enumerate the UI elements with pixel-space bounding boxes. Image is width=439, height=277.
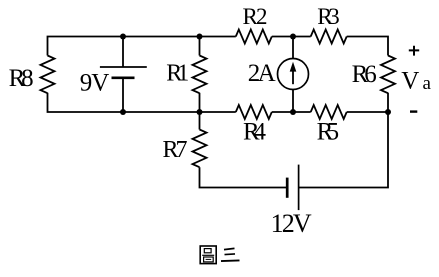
node top R1: [197, 34, 203, 40]
resistor R5: [311, 105, 347, 119]
svg-text:a: a: [423, 73, 432, 94]
node middle R1/R7: [197, 109, 203, 115]
resistor R8: [41, 56, 55, 94]
node top 2A: [290, 34, 296, 40]
battery 9V long plate: [100, 66, 147, 68]
svg-text:R4: R4: [243, 119, 267, 146]
node middle 9V: [120, 109, 126, 115]
wire 9V top: [122, 37, 124, 68]
svg-text:V: V: [401, 68, 419, 95]
battery 12V short plate: [286, 178, 289, 198]
resistor R7: [193, 130, 207, 168]
wire 2A source top: [292, 37, 294, 59]
wire R7 top: [199, 112, 201, 130]
圖 bottom box inner line: [206, 258, 212, 260]
minus sign of Va: [410, 110, 417, 112]
node middle 2A: [290, 109, 296, 115]
wire 9V bottom: [122, 78, 124, 112]
current source I1 2A circle: [278, 59, 309, 90]
wire 2A source bottom: [292, 89, 294, 112]
圖 outer box: [200, 246, 216, 264]
wire right branch down to bottom-right corner: [299, 93, 388, 188]
圖 middle bar: [202, 254, 214, 256]
wire R7 bottom / bottom-left rail: [200, 167, 288, 187]
圖 inner bottom box: [204, 257, 214, 262]
battery 12V long plate: [298, 165, 300, 211]
wire top-left rail: [48, 37, 236, 56]
resistor R4: [236, 105, 272, 119]
resistor R3: [311, 30, 347, 44]
圖 inner top small box: [204, 249, 211, 253]
wire R1 bottom: [199, 93, 201, 112]
wire between R2 and R3: [272, 36, 311, 38]
三 bottom stroke: [221, 259, 240, 262]
wire top-right corner: [347, 37, 388, 56]
wire R1 top: [199, 37, 201, 56]
svg-text:R1: R1: [166, 61, 189, 87]
svg-text:R7: R7: [163, 137, 188, 163]
svg-text:R6: R6: [352, 61, 377, 88]
caption 圖三 (Figure 3): [200, 246, 239, 264]
node top 9V: [120, 34, 126, 40]
svg-text:9V: 9V: [80, 70, 110, 97]
wire bottom-left corner / middle rail left: [48, 93, 236, 112]
三 top stroke: [224, 248, 235, 249]
wire between R4 and R5: [272, 111, 311, 113]
current source arrow: [292, 71, 294, 85]
node middle right R6: [385, 109, 391, 115]
三 middle stroke: [225, 253, 236, 256]
svg-text:R2: R2: [243, 4, 268, 29]
plus sign of Va: [409, 46, 419, 56]
svg-text:2A: 2A: [248, 60, 276, 87]
svg-text:12V: 12V: [271, 209, 312, 238]
battery 9V short plate: [112, 76, 135, 79]
svg-text:R8: R8: [9, 65, 34, 92]
resistor R6: [381, 56, 395, 94]
wire middle rail right: [347, 111, 388, 113]
resistor R2: [236, 30, 272, 44]
svg-text:R3: R3: [317, 4, 340, 29]
resistor R1: [193, 56, 207, 94]
svg-text:R5: R5: [317, 119, 340, 146]
